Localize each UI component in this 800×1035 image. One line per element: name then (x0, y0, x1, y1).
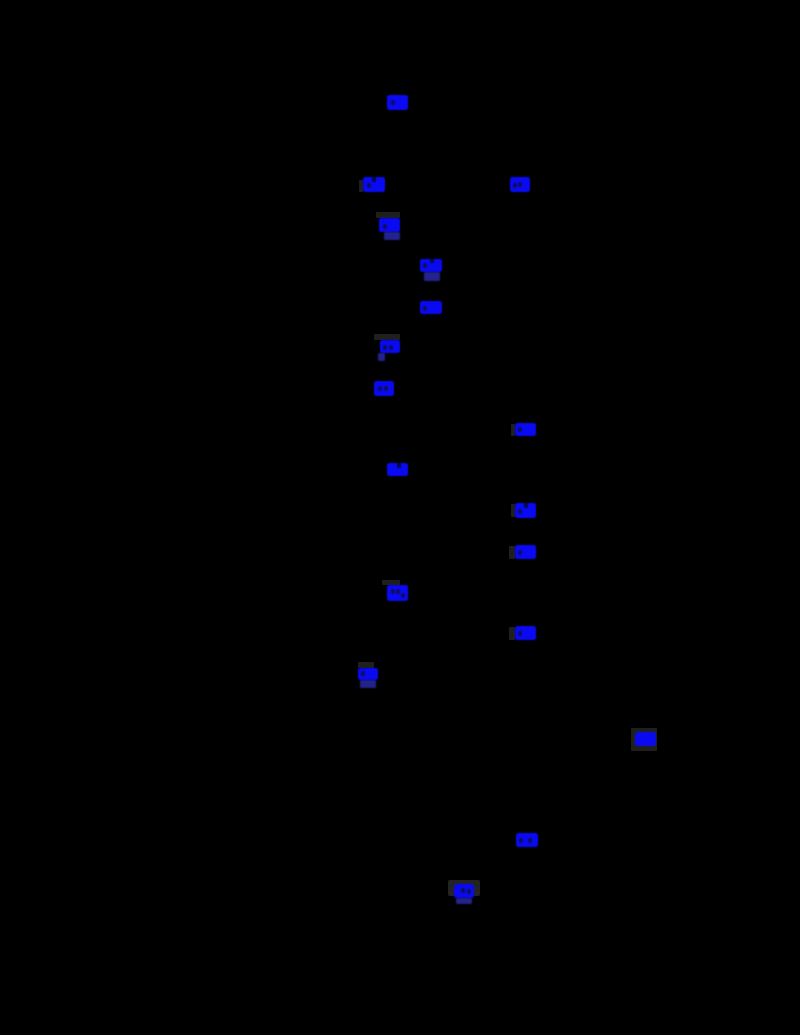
net label out (454, 884, 474, 898)
net label out, tail (456, 898, 472, 904)
antialias remnant above label 16 (358, 662, 374, 668)
value label C5 (358, 668, 378, 680)
value label R8 (387, 463, 408, 476)
antialias remnant around label 15 (631, 728, 657, 751)
antialias remnant left of label 14 (509, 627, 515, 640)
value label R2 (363, 177, 385, 192)
value label C2 (420, 259, 442, 272)
value label R4, tail (378, 353, 385, 361)
value label R6 (510, 177, 530, 192)
antialias remnant left of label 9 (511, 424, 515, 436)
value label R5 (374, 381, 394, 396)
antialias remnant left of label 13 (509, 546, 515, 559)
value label C4 (387, 585, 408, 601)
antialias remnant left of label 10 (511, 504, 515, 517)
value label R9 (515, 545, 536, 559)
value label C2, second line (424, 272, 440, 281)
net label gnd (516, 833, 538, 847)
value label C1, second line (384, 232, 400, 240)
value label R4 (380, 340, 400, 353)
value label R10 (515, 626, 536, 640)
value label R3 (420, 301, 442, 314)
antialias remnant near label 2 (359, 180, 363, 192)
antialias remnant above label 6 (374, 334, 400, 340)
value label R11 (635, 732, 656, 746)
antialias remnant above label 3 (376, 212, 400, 218)
net label out, halo (448, 880, 480, 896)
value label R7 (515, 423, 536, 436)
value label R1 (node at top) (387, 95, 408, 110)
value label C3 (515, 503, 536, 518)
antialias remnant above label 12 (382, 580, 400, 585)
value label C5, second line (360, 680, 376, 688)
value label C1 (379, 218, 400, 232)
